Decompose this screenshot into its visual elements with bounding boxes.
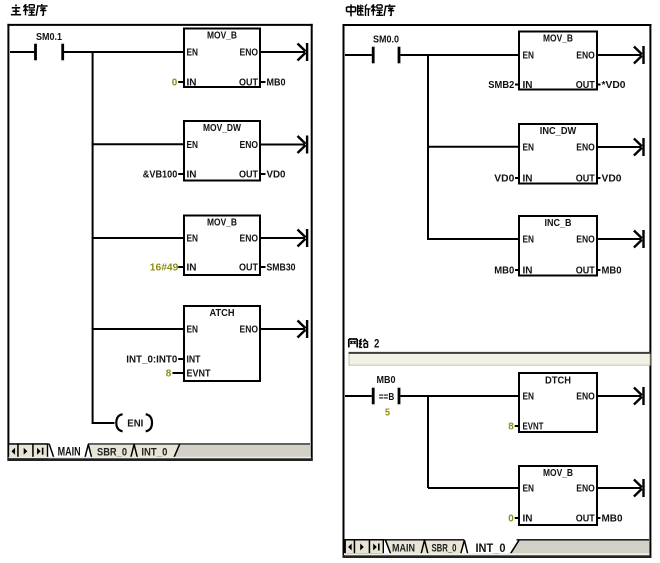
rung arrow 3 left panel — [298, 229, 308, 247]
svg-text:EN: EN — [187, 324, 199, 336]
wire trunk to block U2 — [92, 143, 184, 145]
value VD0 input of R2 — [494, 173, 519, 185]
svg-text:ENO: ENO — [576, 391, 595, 403]
left divider MAIN-SBR_0 — [85, 444, 92, 458]
svg-text:EN: EN — [523, 234, 535, 246]
title text 主程序 (main program) — [11, 4, 48, 16]
svg-text:SBR_0: SBR_0 — [97, 446, 127, 458]
right nav button next — [355, 540, 370, 554]
svg-text:EN: EN — [187, 233, 199, 245]
value 0 input of R5 — [508, 513, 519, 525]
wire trunk to block R3 — [427, 238, 519, 240]
left tab strip bottom band — [7, 457, 312, 461]
block U4 ATCH — [184, 306, 260, 381]
value 8 EVNT input of U4 — [166, 368, 184, 380]
left panel sheet left border / power rail — [7, 24, 9, 461]
wire ENO R4 to arrow — [597, 395, 642, 397]
left tab strip top line — [10, 443, 310, 445]
svg-text:EN: EN — [187, 47, 199, 59]
svg-text:0: 0 — [172, 77, 178, 89]
left panel sheet top border — [7, 24, 312, 26]
svg-text:VD0: VD0 — [494, 173, 514, 185]
wire ENO U3 to arrow — [260, 237, 305, 239]
value MB0 input of R3 — [494, 265, 519, 277]
block R5 MOV_B — [519, 466, 597, 525]
wire elbow to coil ENI — [92, 422, 115, 424]
svg-text:2: 2 — [374, 337, 380, 351]
svg-text:MOV_DW: MOV_DW — [203, 122, 241, 134]
svg-text:ENO: ENO — [240, 47, 259, 59]
output stub MB0 of R3 — [597, 265, 622, 277]
svg-text:IN: IN — [187, 169, 197, 181]
svg-text:OUT: OUT — [239, 77, 258, 89]
block R2 INC_DW — [519, 124, 597, 185]
left tab MAIN label — [58, 447, 81, 459]
left tab end slash — [174, 444, 180, 458]
svg-text:INC_B: INC_B — [545, 217, 572, 229]
coil ENI — [116, 414, 152, 431]
svg-text:INT: INT — [187, 354, 201, 366]
right tab INT_0 label — [476, 543, 506, 555]
svg-text:IN: IN — [187, 262, 197, 274]
svg-text:OUT: OUT — [576, 173, 595, 185]
wire trunk to block R5 — [428, 487, 519, 489]
wire ENO R1 to arrow — [597, 54, 642, 56]
rung arrow R5 — [634, 479, 644, 497]
svg-text:EN: EN — [187, 139, 199, 151]
wire contact to block R1 — [401, 54, 520, 56]
svg-text:SBR_0: SBR_0 — [432, 543, 457, 555]
block R4 DTCH — [519, 373, 597, 433]
rung arrow R2 — [634, 138, 644, 156]
svg-text:MB0: MB0 — [494, 265, 514, 277]
wire trunk to block U3 — [92, 237, 184, 239]
svg-text:&VB100: &VB100 — [143, 169, 178, 181]
svg-text:SMB2: SMB2 — [488, 79, 514, 91]
value INT_0:INT0 input of U4 — [126, 354, 184, 366]
output stub *VD0 of R1 — [597, 79, 626, 91]
rung arrow 4 left panel — [298, 320, 308, 338]
svg-text:OUT: OUT — [576, 79, 595, 91]
right nav button prev — [345, 540, 354, 554]
right panel sheet top border — [343, 24, 652, 26]
wire ENO R5 to arrow — [597, 487, 642, 489]
right tab MAIN slant — [386, 540, 391, 554]
svg-text:MOV_B: MOV_B — [207, 30, 237, 42]
network 2 comment bar — [349, 353, 651, 365]
svg-text:8: 8 — [166, 368, 172, 380]
value 0 input of U1 — [172, 77, 184, 89]
svg-text:ENI: ENI — [127, 417, 143, 429]
svg-text:EN: EN — [523, 142, 535, 154]
rung arrow R4 — [634, 387, 644, 405]
wire vertical trunk right net2 — [427, 395, 429, 488]
svg-text:0: 0 — [508, 513, 514, 525]
svg-text:8: 8 — [508, 421, 514, 433]
contact SM0.0 — [373, 34, 399, 63]
svg-text:ENO: ENO — [240, 233, 259, 245]
contact MB0 ==B compare — [373, 375, 399, 419]
svg-text:IN: IN — [523, 265, 533, 277]
svg-text:EN: EN — [523, 483, 535, 495]
right panel sheet left border / power rail — [343, 24, 345, 556]
wire contact to block U1 — [64, 51, 184, 53]
contact SM0.1 — [36, 32, 63, 61]
left tab INT_0 label — [141, 446, 167, 458]
svg-text:MAIN: MAIN — [392, 543, 415, 555]
svg-text:MB0: MB0 — [602, 265, 622, 277]
svg-text:OUT: OUT — [239, 262, 258, 274]
svg-text:ATCH: ATCH — [210, 307, 235, 319]
output stub MB0 of R5 — [597, 513, 623, 525]
left filler strip — [174, 445, 310, 458]
svg-text:5: 5 — [385, 407, 390, 419]
rung arrow 2 left panel — [298, 136, 308, 154]
svg-text:VD0: VD0 — [602, 173, 622, 185]
svg-text:OUT: OUT — [239, 169, 258, 181]
svg-text:IN: IN — [523, 513, 533, 525]
left tab MAIN slant — [49, 444, 54, 458]
svg-text:OUT: OUT — [576, 513, 595, 525]
output stub VD0 of U2 — [260, 169, 286, 181]
svg-text:EVNT: EVNT — [523, 421, 544, 433]
svg-text:16#49: 16#49 — [150, 262, 179, 274]
svg-text:SM0.0: SM0.0 — [373, 34, 399, 45]
output stub MB0 of U1 — [260, 77, 286, 89]
svg-text:MOV_B: MOV_B — [543, 33, 573, 45]
right divider SBR_0-INT_0 — [461, 540, 468, 554]
rung arrow 1 left panel — [298, 43, 308, 61]
svg-text:ENO: ENO — [576, 483, 595, 495]
right divider MAIN-SBR_0 — [421, 540, 428, 554]
svg-text:ENO: ENO — [240, 324, 259, 336]
wire contact to block R4 — [401, 395, 520, 397]
block R1 MOV_B — [519, 32, 597, 92]
right tab SBR_0 label — [432, 543, 457, 555]
svg-text:MOV_B: MOV_B — [543, 467, 573, 479]
svg-text:DTCH: DTCH — [545, 375, 571, 387]
svg-text:INT_0: INT_0 — [476, 543, 506, 555]
wire rail to contact SM0.1 — [10, 51, 34, 53]
value &VB100 input of U2 — [143, 169, 184, 181]
block U1 MOV_B — [184, 29, 260, 89]
left panel sheet right border — [311, 24, 313, 461]
rung arrow R1 — [634, 46, 644, 64]
wire vertical trunk left panel — [92, 51, 94, 423]
svg-text:SMB30: SMB30 — [267, 262, 296, 274]
value 8 EVNT input of R4 — [508, 421, 519, 433]
svg-text:ENO: ENO — [576, 234, 595, 246]
right filler strip — [510, 541, 649, 555]
svg-text:MB0: MB0 — [377, 375, 396, 386]
wire trunk to block U4 — [92, 328, 184, 330]
block U3 MOV_B — [184, 216, 260, 276]
svg-text:MB0: MB0 — [267, 77, 286, 89]
right tab MAIN label — [392, 543, 415, 555]
wire ENO U4 to arrow — [260, 328, 305, 330]
right tab strip top line — [345, 539, 649, 541]
rung arrow R3 — [634, 230, 644, 248]
svg-text:SM0.1: SM0.1 — [36, 32, 62, 43]
svg-text:EN: EN — [523, 391, 535, 403]
left tab SBR_0 label — [97, 446, 127, 458]
wire rail to contact SM0.0 — [345, 54, 372, 56]
value SMB2 input of R1 — [488, 79, 519, 91]
svg-text:EN: EN — [523, 50, 535, 62]
value 16#49 input of U3 — [150, 262, 184, 274]
left nav button next — [18, 444, 33, 458]
block R3 INC_B — [519, 216, 597, 277]
svg-text:IN: IN — [187, 77, 197, 89]
svg-text:INC_DW: INC_DW — [540, 125, 577, 137]
svg-text:MB0: MB0 — [602, 513, 623, 525]
svg-text:EVNT: EVNT — [187, 368, 211, 380]
left inactive tabs background — [88, 445, 179, 458]
svg-text:==B: ==B — [379, 391, 395, 403]
svg-text:ENO: ENO — [576, 50, 595, 62]
svg-text:IN: IN — [523, 173, 533, 185]
svg-text:*VD0: *VD0 — [602, 79, 626, 91]
output stub VD0 of R2 — [597, 173, 622, 185]
left nav button last — [33, 444, 48, 458]
right tab end slash — [510, 540, 519, 554]
block U2 MOV_DW — [184, 121, 260, 181]
svg-text:ENO: ENO — [576, 142, 595, 154]
title text 中断程序 (interrupt program) — [347, 4, 396, 16]
svg-text:MOV_B: MOV_B — [207, 217, 237, 229]
left divider SBR_0-INT_0 — [131, 444, 138, 458]
network 2 label 网络 2 — [349, 337, 380, 351]
right inactive tabs background — [386, 541, 465, 555]
right panel sheet right border — [649, 24, 651, 558]
wire ENO R2 to arrow — [597, 146, 642, 148]
svg-text:INT_0: INT_0 — [141, 446, 167, 458]
wire ENO U2 to arrow — [260, 144, 305, 146]
output stub SMB30 of U3 — [260, 262, 296, 274]
svg-text:IN: IN — [523, 79, 533, 91]
right nav button last — [370, 540, 384, 554]
right tab strip bottom band — [343, 553, 652, 558]
wire vertical trunk right net1 — [427, 54, 429, 239]
svg-text:VD0: VD0 — [267, 169, 286, 181]
svg-text:ENO: ENO — [240, 139, 259, 151]
wire ENO U1 to arrow — [260, 51, 305, 53]
wire trunk to block R2 — [427, 146, 519, 148]
wire ENO R3 to arrow — [597, 238, 642, 240]
svg-text:OUT: OUT — [576, 265, 595, 277]
wire rail to contact MB0 — [345, 395, 372, 397]
left nav button prev — [9, 444, 19, 458]
svg-text:INT_0:INT0: INT_0:INT0 — [126, 354, 177, 366]
